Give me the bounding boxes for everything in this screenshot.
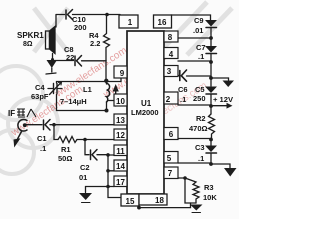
- node pin7: [183, 176, 187, 180]
- wire bottom from pins 15/18: [139, 203, 191, 208]
- pin 7 box: [164, 167, 178, 179]
- svg-text:4: 4: [169, 50, 174, 59]
- wire C7 to node: [210, 54, 212, 63]
- svg-text:470Ω: 470Ω: [189, 124, 208, 133]
- capacitor C8: [75, 56, 82, 67]
- svg-text:.1: .1: [40, 144, 46, 153]
- IC U1 body: [114, 15, 178, 206]
- resistor R3: [185, 178, 199, 203]
- node bus top: [106, 153, 110, 157]
- wire C8 left: [53, 60, 74, 62]
- wire pin4 to rail: [178, 60, 211, 62]
- svg-text:C5: C5: [195, 85, 205, 94]
- ground right: [224, 168, 237, 177]
- wire to ground mid: [86, 187, 109, 193]
- pin 13 box: [114, 114, 127, 125]
- wire C6 to rail: [187, 75, 212, 77]
- pin 16 box: [154, 15, 172, 28]
- pin 3 box: [164, 66, 178, 77]
- svg-text:+ 12V: + 12V: [213, 95, 234, 104]
- wire C5 to node: [210, 94, 212, 114]
- wire node down to R1: [54, 125, 58, 140]
- capacitor C9: [205, 20, 217, 28]
- wire C9 to node: [210, 28, 212, 39]
- resistor R1: [58, 137, 77, 143]
- svg-text:9: 9: [120, 69, 125, 78]
- svg-text:.01: .01: [193, 26, 203, 35]
- pin 15 box: [121, 194, 139, 206]
- capacitor C6: [180, 70, 187, 81]
- inductor L1 coil: [107, 84, 110, 103]
- wire rail segment: [210, 62, 212, 86]
- wire node to pin13: [54, 124, 114, 126]
- wire pin8 to rail: [178, 37, 211, 39]
- wire node down: [185, 178, 196, 203]
- pin 2 box: [164, 92, 178, 104]
- wire pin16 to C9 rail: [171, 15, 211, 20]
- node rail 1: [209, 36, 213, 40]
- wire bus to pin14: [108, 170, 114, 172]
- svg-text:16: 16: [158, 18, 167, 27]
- svg-text:01: 01: [79, 173, 87, 182]
- svg-text:L1: L1: [83, 85, 92, 94]
- node top (junction): [105, 13, 109, 17]
- svg-text:R1: R1: [61, 145, 71, 154]
- wire speaker bottom lead: [52, 54, 54, 60]
- svg-text:7–14μH: 7–14μH: [60, 97, 87, 106]
- wire speaker top lead: [55, 15, 57, 27]
- svg-text:C7: C7: [196, 43, 206, 52]
- +12V arrow: [213, 103, 233, 109]
- wire pin6 to rail: [178, 138, 211, 140]
- svg-text:15: 15: [126, 197, 135, 206]
- pin 14 box: [114, 160, 127, 171]
- pin 10 box: [114, 94, 127, 106]
- svg-text:C1: C1: [37, 134, 47, 143]
- svg-text:63pF: 63pF: [31, 92, 49, 101]
- label IF input CJK: [17, 109, 36, 117]
- svg-text:17: 17: [116, 178, 125, 187]
- node bus mid: [106, 169, 110, 173]
- svg-text:10: 10: [116, 97, 125, 106]
- svg-text:LM2000: LM2000: [131, 108, 159, 117]
- wire jack to C1: [26, 124, 42, 126]
- svg-text:.1: .1: [198, 154, 204, 163]
- input jack J1: [14, 119, 28, 147]
- wire bus to pin11: [108, 154, 114, 156]
- node bottom: [137, 206, 141, 210]
- svg-text:SPKR1: SPKR1: [17, 31, 44, 40]
- wire node to pin1: [107, 14, 120, 16]
- svg-text:6: 6: [169, 130, 174, 139]
- wire node down to C2: [85, 140, 89, 155]
- svg-text:1: 1: [128, 18, 133, 27]
- wire top from speaker to C10: [56, 14, 65, 16]
- pin 17 box: [114, 176, 127, 187]
- svg-text:2: 2: [166, 95, 171, 104]
- wire pin7 to node: [178, 177, 185, 179]
- svg-text:C4: C4: [35, 83, 45, 92]
- watermark red rows: [9, 45, 209, 139]
- svg-text:U1: U1: [141, 99, 152, 108]
- svg-text:13: 13: [116, 116, 125, 125]
- wire pin5 to rail: [178, 162, 211, 164]
- capacitor C10: [66, 10, 73, 20]
- svg-text:8: 8: [168, 33, 173, 42]
- pin 8 box: [164, 31, 178, 42]
- pin 12 box: [114, 129, 127, 140]
- speaker SPKR1: [46, 27, 56, 54]
- node bus low: [106, 185, 110, 189]
- pin 6 box: [164, 128, 178, 140]
- ground under speaker: [46, 60, 57, 74]
- node rail 6: [209, 162, 213, 166]
- arrow variable L1: [113, 84, 119, 106]
- ground right wire: [211, 164, 230, 168]
- svg-text:.1: .1: [180, 95, 186, 104]
- svg-text:3: 3: [167, 67, 172, 76]
- ground top-right: [223, 81, 235, 88]
- wire rail segment2: [210, 140, 212, 146]
- svg-text:IF: IF: [8, 109, 15, 118]
- svg-text:18: 18: [155, 196, 164, 205]
- svg-text:C9: C9: [194, 16, 204, 25]
- svg-text:10K: 10K: [203, 193, 217, 202]
- wire C8 right to corner: [82, 61, 107, 82]
- pin 4 box: [164, 48, 178, 59]
- svg-text:C2: C2: [80, 163, 90, 172]
- pin 5 box: [164, 152, 178, 164]
- wire bus to pin17: [108, 186, 114, 188]
- svg-text:50Ω: 50Ω: [58, 154, 72, 163]
- capacitor C1: [44, 120, 51, 131]
- svg-text:22: 22: [66, 53, 74, 62]
- resistor R4: [104, 15, 110, 62]
- node after C1: [52, 123, 56, 127]
- node tank bottom-right: [105, 109, 109, 113]
- svg-text:.1: .1: [198, 52, 204, 61]
- tank box L1: [57, 82, 107, 111]
- svg-text:250: 250: [193, 94, 206, 103]
- wire C10 to node: [73, 14, 108, 16]
- wire pin3 to C6: [177, 75, 180, 77]
- svg-text:C3: C3: [195, 143, 205, 152]
- wire R1 to node: [77, 139, 114, 141]
- capacitor C4 trimmer: [48, 82, 62, 95]
- svg-text:7: 7: [168, 169, 173, 178]
- node rail 5: [209, 138, 213, 142]
- node tank top-right: [104, 79, 108, 83]
- node after R1: [83, 138, 87, 142]
- wire rail: [210, 38, 212, 46]
- capacitor C7: [205, 46, 217, 54]
- node rail 2: [209, 60, 213, 64]
- node rail 4: [209, 104, 213, 108]
- watermark gray: [0, 2, 232, 174]
- svg-text:2.2: 2.2: [90, 39, 100, 48]
- wire pin2 to rail: [178, 104, 211, 106]
- node rail 3: [209, 76, 213, 80]
- ground top-right wire: [211, 78, 229, 80]
- svg-text:R2: R2: [196, 114, 206, 123]
- svg-text:C6: C6: [178, 85, 188, 94]
- pin 9 box: [114, 66, 127, 78]
- pin numbers: [116, 18, 174, 206]
- pin 1 box: [119, 15, 138, 28]
- svg-text:8Ω: 8Ω: [23, 41, 33, 48]
- svg-text:14: 14: [116, 162, 125, 171]
- svg-text:200: 200: [74, 23, 87, 32]
- capacitor C3: [205, 146, 217, 154]
- svg-text:11: 11: [116, 147, 125, 156]
- ground R3: [190, 205, 203, 213]
- capacitor C2: [91, 150, 98, 161]
- svg-text:12: 12: [116, 131, 125, 140]
- pin 18 box: [139, 194, 167, 205]
- resistor R2: [209, 114, 215, 140]
- ground mid: [79, 193, 92, 203]
- wire C1 to node: [50, 124, 54, 126]
- capacitor C5: [205, 87, 217, 95]
- wire tank corner to pin9: [106, 78, 121, 82]
- junction speaker/C8: [51, 58, 54, 61]
- wire C2 to bus: [97, 154, 108, 156]
- svg-text:5: 5: [167, 154, 172, 163]
- wire bus vertical: [108, 155, 121, 198]
- pin 11 box: [114, 145, 127, 156]
- wire C3 to node: [210, 153, 212, 164]
- svg-text:R3: R3: [204, 183, 214, 192]
- wire coil to pin10: [108, 100, 114, 102]
